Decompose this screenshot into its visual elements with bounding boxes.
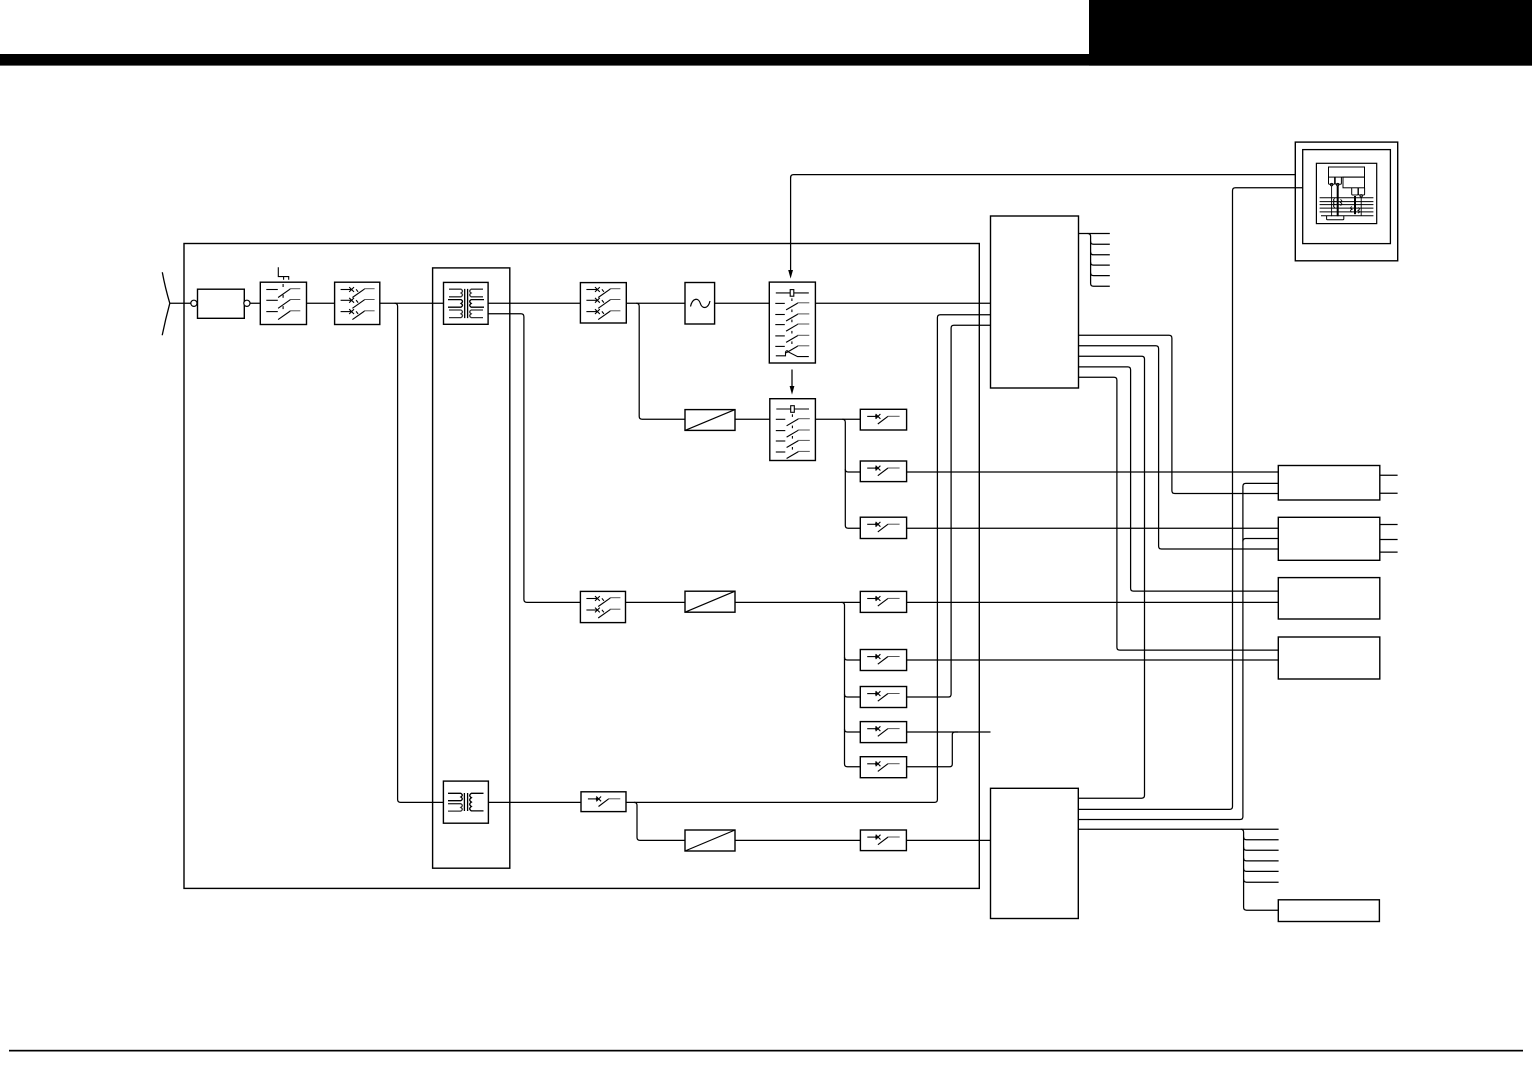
wire S4 to D2 [626,601,686,603]
diagonal box D3 [685,830,735,851]
switch box S3 [580,283,626,323]
wire T1 to S3 [488,302,580,304]
output box RB [1278,900,1379,922]
connector plug circle 1 [191,300,197,306]
wire C to R2 [907,527,1279,529]
transformer T2 [443,781,488,823]
UB output 1 to R1 input 3 [1079,335,1279,493]
connector plug circle 2 [244,300,250,306]
switch box C [860,517,906,538]
switch box A [860,409,906,430]
wire D3 to S6 [735,839,860,841]
sine converter box [685,283,715,325]
wire D1 to TB2 [735,418,770,420]
tall switch box TB1 [769,282,815,363]
2-switch box S4 [580,591,625,622]
footer rule [9,1050,1523,1052]
switch box S1 [260,282,306,324]
RF converter box [198,289,245,318]
LB output 2 up to inset [1079,188,1303,810]
switch box S5 [581,792,626,812]
wire T1 secondary down to S4 [488,314,580,603]
wire SB5 joining SB4 line [907,732,958,767]
main outer border rectangle [184,244,979,889]
wire TB1 to big box UB [815,302,990,304]
output box R2 [1278,517,1380,560]
wire SB1 to R3 [907,601,1279,603]
wire S2 to transformer T1 [380,302,444,304]
big box LB (audio IC) [991,788,1079,918]
arrow wire from inset to TB1 [791,175,1296,178]
UB output 4 to R3 input 1 [1079,367,1279,591]
UB output 2 to R2 input 3 [1079,346,1279,549]
wire sine to tall box TB1 [715,302,770,304]
wire S3 to sine box [626,302,685,304]
wire S6 to lower big box LB [906,839,990,841]
branch vertical feeding SB2..SB5 [842,602,861,766]
wire box to connector 2 [244,302,260,304]
wire SB4 open ended [907,731,991,733]
diagonal box D2 [685,591,735,612]
switch box S6 [860,830,906,851]
diagonal box D1 [685,410,735,431]
transformer enclosure [433,268,510,868]
UB top connector fan-out [1079,233,1110,235]
switch box SB2 [860,650,906,671]
LB output 4 with connector fan-out to RB [1079,828,1279,830]
output box R3 [1278,578,1380,619]
wire B to R1 [907,471,1279,473]
wire SB2 to R4 [907,659,1279,661]
junction branch down to diagonal box D1 [636,303,685,419]
switch box S2 [335,282,380,324]
switch box SB3 [860,687,906,708]
UB output 5 to R4 input 1 [1079,377,1279,650]
tall switch box TB2 [770,399,816,461]
junction branch down to transformer T2 [395,303,444,802]
output box R4 [1278,637,1380,679]
sine glyph [691,299,711,307]
switch box SB1 [860,591,906,612]
inset reference frame middle [1303,150,1391,244]
switch box B [860,461,906,482]
inset reference frame inner [1316,163,1376,223]
transformer T1 [444,282,489,324]
wire TB2 to switch A [815,418,860,420]
LB output 3 up to R1 input 2 with branch to R2 input 2 [1079,483,1279,819]
wire T2 to S5 [488,801,581,803]
wire S1 to S2 [307,302,335,304]
branch down to diagonal box D3 [634,802,685,840]
wire S5 up to big box UB input 2 [626,315,991,803]
branch down to switches B and C [842,419,860,528]
inset reference frame outer [1295,142,1397,261]
wire antenna to connector [170,302,198,304]
big box UB (tuner IC) [991,216,1079,388]
antenna [162,272,170,335]
wire SB3 up to big box UB input 3 [907,325,991,697]
output box R1 [1278,466,1380,501]
switch box SB4 [860,722,906,743]
arrow between TB1 and TB2 [791,370,793,388]
UB output 3 bus down to LB output 1 [1079,356,1145,798]
step waveform symbol above switch box S1 [278,267,288,280]
header black band [0,54,1532,66]
wire D2 to SB1 [735,601,860,603]
inset miniature schematic [1320,167,1374,220]
header black tab [1089,0,1532,66]
switch box SB5 [860,757,906,778]
